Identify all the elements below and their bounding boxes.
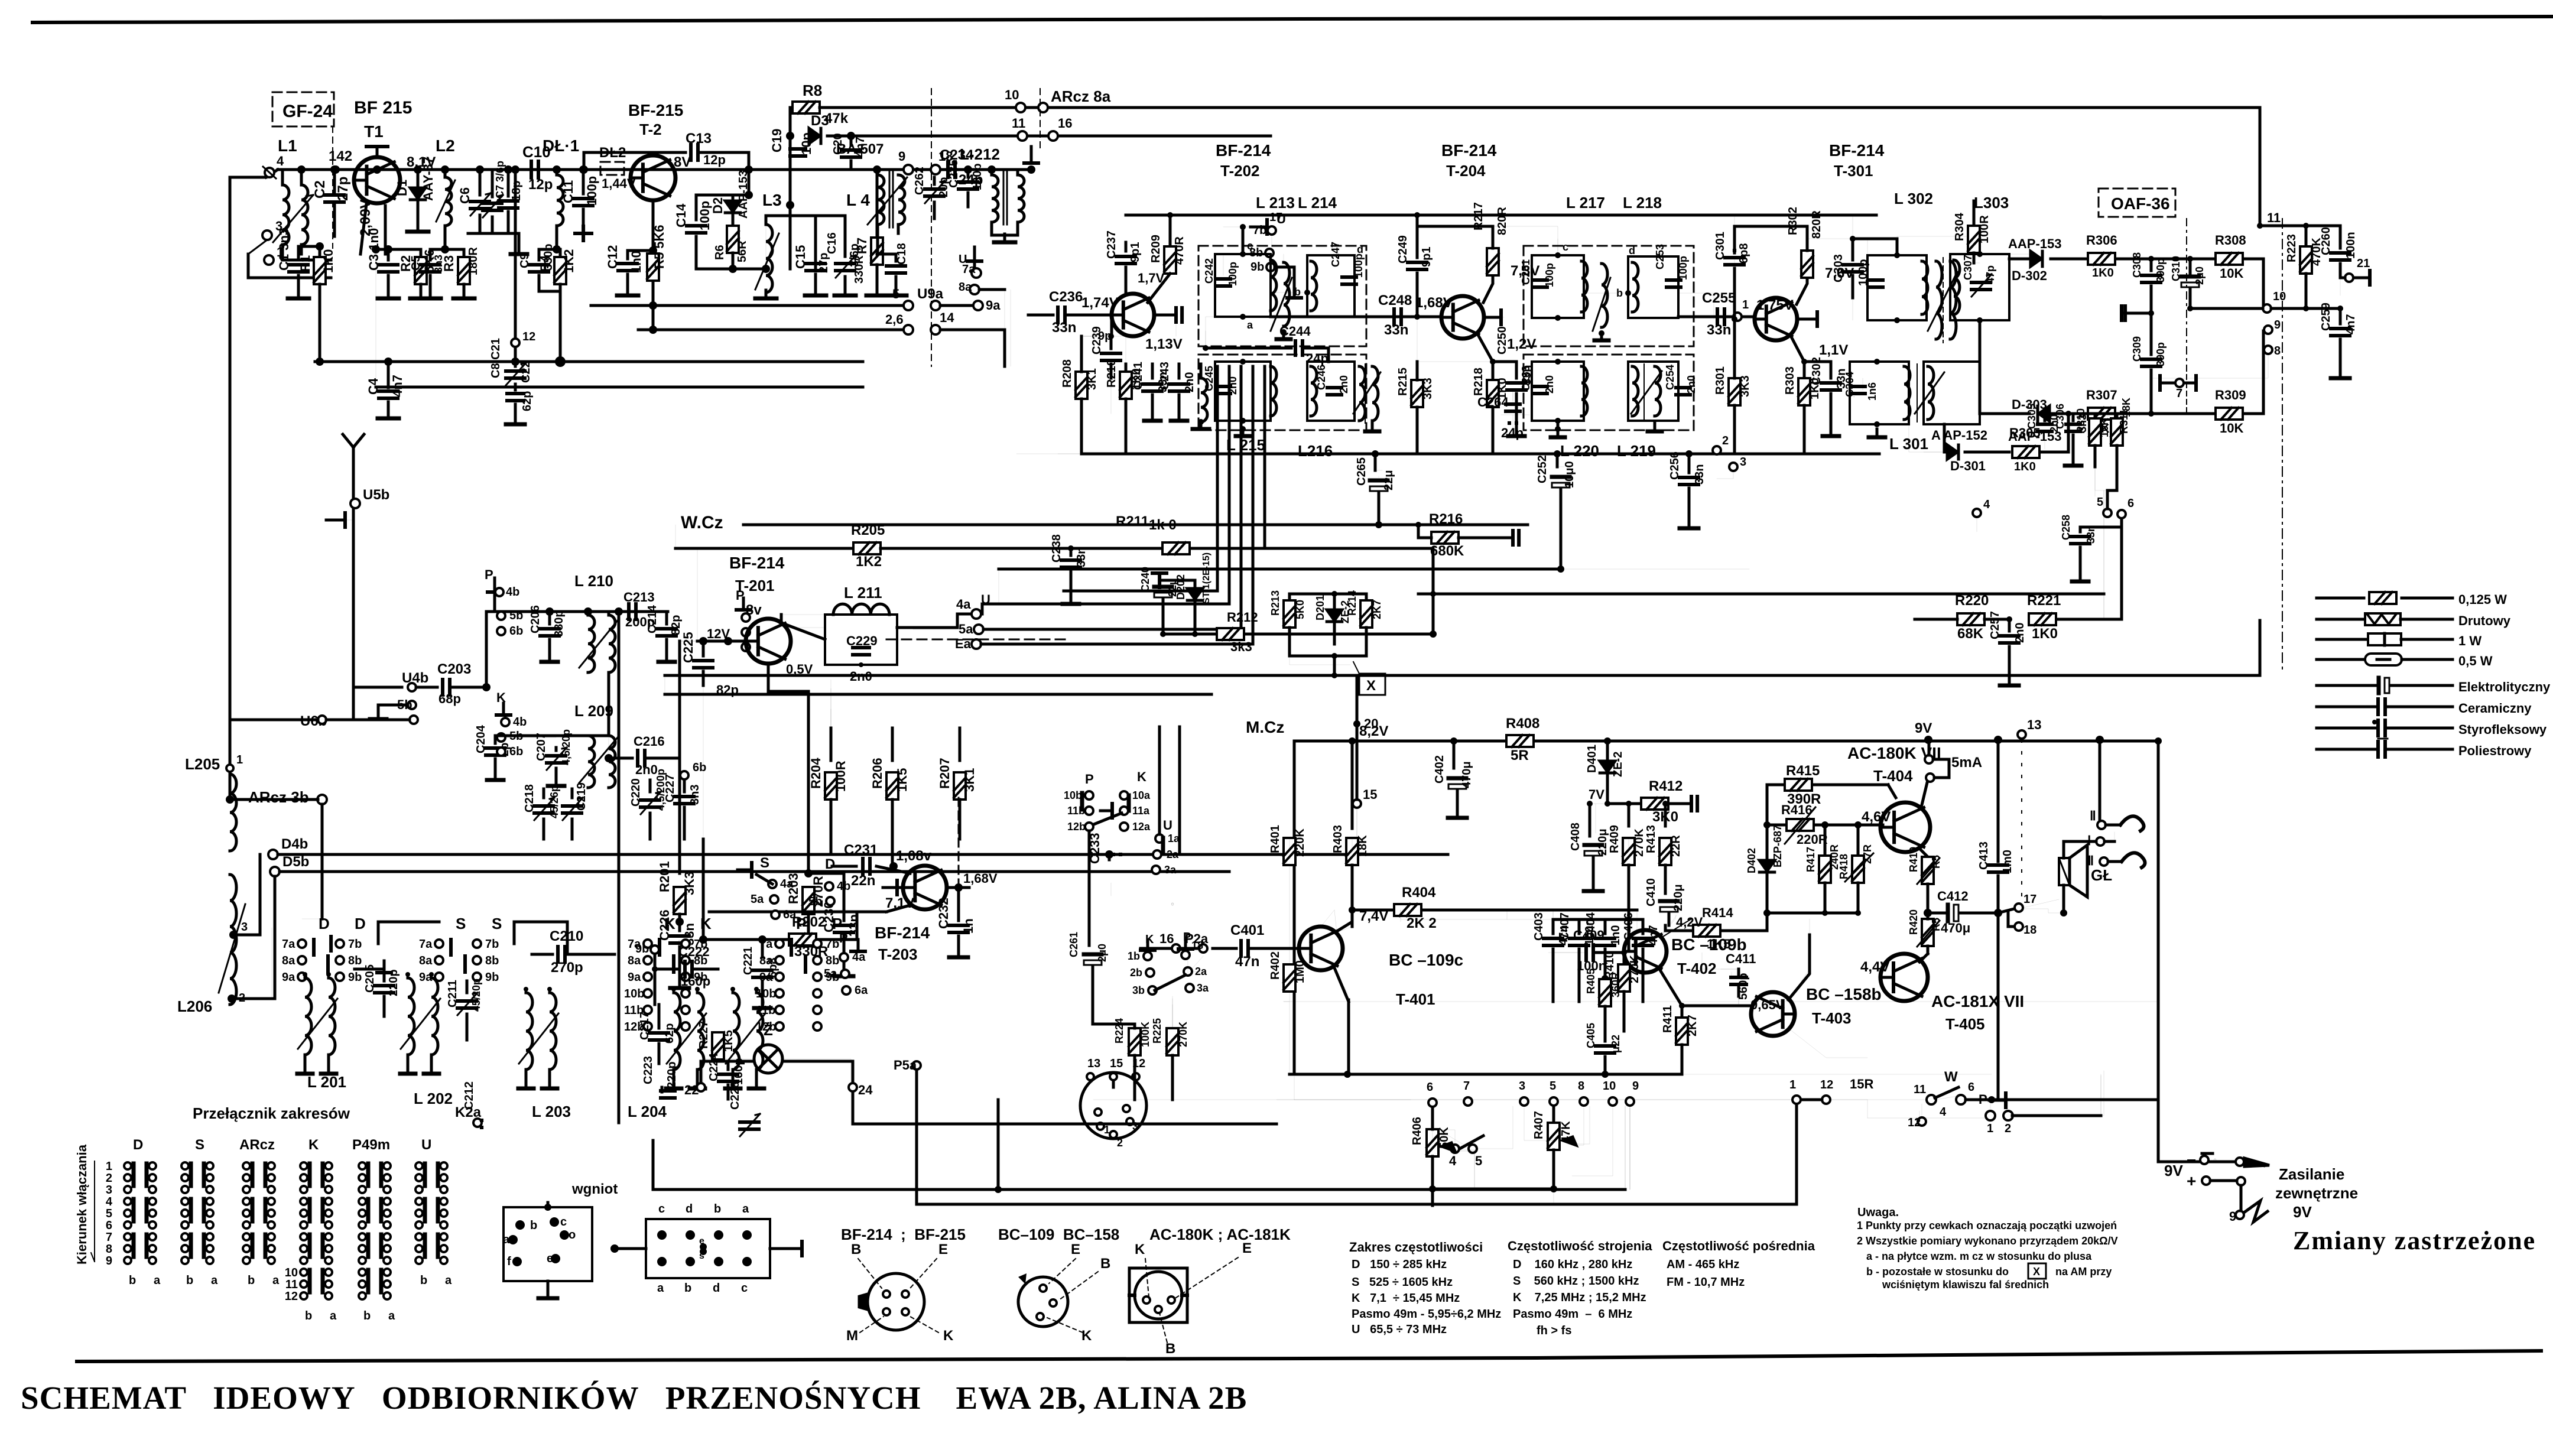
svg-text:C216: C216 [634,734,665,749]
capacitor C214 82p [646,604,683,662]
bus y1005 [1418,490,2104,619]
wire can B top [1493,226,1558,255]
svg-text:B: B [1100,1256,1110,1272]
svg-text:C244: C244 [1279,324,1311,339]
label BF-214 T-204 [1441,141,1497,180]
svg-text:C258: C258 [2060,515,2072,540]
svg-text:D: D [355,915,366,932]
node D2 block top [696,170,753,199]
table zakres row S [1352,1276,1453,1289]
svg-text:4,2V: 4,2V [1676,915,1703,929]
DIN labels [1087,1057,1145,1080]
coil L212 primary [960,145,1000,222]
terminal battery 9 [2229,1194,2268,1224]
svg-text:15: 15 [1363,787,1377,802]
label L218 [1623,194,1662,212]
capacitor C5 3n3 [410,249,444,298]
wire T301 emitter down [1784,336,1821,454]
svg-text:R409: R409 [1608,825,1621,853]
resistor R406 50K pot [1411,1107,1474,1205]
wire x20 terminal [1353,675,1378,854]
svg-text:b: b [530,1219,537,1232]
wire caps top bus [1401,910,1643,919]
svg-text:L 218: L 218 [1623,194,1662,212]
switch cluster K P mid [1128,931,1209,996]
wire L210 top [532,610,668,613]
terminal battery plus [2164,1162,2245,1190]
speaker hatch [2059,858,2070,885]
svg-text:C15: C15 [793,245,808,269]
svg-text:b - pozostałe w stosunku do: b - pozostałe w stosunku do [1866,1266,2009,1278]
lamp Z [754,1021,782,1073]
svg-text:C235: C235 [947,160,960,188]
resistor R203 270R [703,685,826,945]
wire antenna down [352,473,355,720]
resistor R311 18K [2111,398,2132,467]
wire D5b long [275,872,1229,999]
resistor R223 470K [2285,223,2323,311]
tank L303 [1950,251,2009,323]
wire pots feed [1524,1106,1613,1176]
label 8.1V [407,154,436,170]
svg-text:R4: R4 [538,255,553,272]
svg-text:C14: C14 [674,203,688,227]
svg-text:3K3: 3K3 [1739,375,1752,397]
diode D-302 [1980,236,2086,283]
resistor R402 1M0 [1269,904,1307,1074]
wire switch interconnect2 [514,922,567,954]
svg-text:Przełącznik zakresów: Przełącznik zakresów [193,1104,350,1122]
wire AF left vert [1294,741,1295,1074]
svg-text:12: 12 [522,330,535,343]
capacitor C217 62p [638,1005,676,1064]
capacitor C231b [857,873,865,875]
terminal ARcz 8a [1038,87,1111,112]
label BF 215 T1 [354,98,412,141]
ground R3 [0,0,2,2]
bus bottom af [1290,1002,1682,1078]
svg-text:C236: C236 [1049,289,1083,305]
label 2.09V [358,199,373,236]
svg-text:a: a [742,1202,749,1215]
wire L303 bottom [1980,320,2009,414]
wire bundle vertical 4 [981,366,1253,644]
tbar 17 top [1024,147,1038,174]
svg-text:220μ: 220μ [1672,884,1685,911]
bus af bottom [1294,1074,1992,1075]
terminal 3 L206 [229,854,260,939]
label L215 [1226,436,1265,454]
capacitor C9 330p [518,243,560,291]
wire L3 top to caps [766,216,845,259]
svg-text:b: b [248,1274,255,1287]
svg-text:D: D [319,915,330,932]
resistor R419 R5 [1908,847,1942,913]
svg-text:100p: 100p [1677,256,1689,280]
svg-text:2b: 2b [1130,967,1142,979]
tank L302 upper [1867,252,1928,323]
svg-text:Drutowy: Drutowy [2458,613,2511,628]
svg-text:1K0: 1K0 [2092,266,2114,279]
terminal U5b [350,487,389,508]
svg-text:5a: 5a [959,622,973,636]
capacitor C7 variable [483,161,506,233]
svg-text:T-204: T-204 [1446,162,1486,180]
capacitor C220 var [629,769,667,839]
svg-text:4: 4 [277,154,284,168]
wire pot top terminals [1427,1080,1639,1107]
transistor T-301 [1755,298,1797,340]
svg-text:R206: R206 [870,758,885,789]
svg-text:R302: R302 [1787,207,1800,235]
svg-text:2n0: 2n0 [1544,375,1555,394]
junction C4 node [384,357,392,366]
svg-text:na AM przy: na AM przy [2055,1266,2112,1278]
svg-text:47n: 47n [1235,954,1259,970]
svg-text:45/26p: 45/26p [548,785,560,818]
switch 4-5 mute [1433,1106,1513,1168]
svg-text:C257: C257 [1989,611,2002,639]
coil L215 input [1193,364,1209,429]
wire R411 to T403 base [1624,1006,1752,1031]
svg-text:12: 12 [1908,1116,1921,1129]
svg-text:33n: 33n [1384,322,1408,338]
diode D-301 AAP-152 [1909,424,2009,473]
wire T-201 to L211 [781,623,825,639]
svg-text:E: E [1242,1240,1252,1256]
svg-text:SCHEMAT IDEOWY ODBIORNIKÓW: SCHEMAT IDEOWY ODBIORNIKÓW PRZENOŚNYCH E… [21,1380,1247,1416]
capacitor C18 4n7 [877,243,908,295]
terminal 5a [913,622,983,636]
wire bottom bus FM [315,249,863,387]
svg-text:R6: R6 [713,245,726,260]
label 142 [329,148,381,174]
tbar T-203 emitter [709,880,910,912]
resistor R1 1K0 [298,242,336,366]
wire T301 collector [1735,207,1823,304]
label 1.08v [896,848,932,864]
terminal 7 tbar [2160,366,2196,414]
capacitor C207 var [535,729,572,786]
svg-text:380p: 380p [553,610,566,637]
svg-text:7a: 7a [419,938,433,951]
svg-text:c: c [1247,240,1253,252]
terminal 17 tbar [1223,211,1282,254]
svg-text:R223: R223 [2285,234,2298,262]
svg-text:C232: C232 [936,898,951,929]
svg-text:10: 10 [2273,290,2286,303]
table col ARcz header [239,1137,275,1153]
resistor R4 1K2 [538,245,576,367]
switch header D2 [355,915,366,932]
svg-text:2n0: 2n0 [1227,376,1239,395]
wire T402 collector [1661,915,1677,937]
L4 arrow [868,177,907,225]
svg-text:22R: 22R [1669,835,1682,857]
svg-text:45/20p: 45/20p [470,979,482,1012]
wire left af to W [1294,1099,1915,1100]
svg-text:μ22: μ22 [1610,1035,1622,1053]
svg-text:9V: 9V [2293,1203,2312,1221]
wire T404 collector top [1921,775,1929,807]
svg-text:C251: C251 [1520,259,1532,285]
L212 core [1003,171,1007,225]
bus y1861 left [1093,1099,1294,1100]
svg-text:9: 9 [898,149,905,164]
svg-text:C6: C6 [457,187,472,204]
label 8V [674,154,691,170]
wire T202 base bias [1111,315,1112,414]
wire D402 R417 bottom [1767,910,1861,916]
svg-text:390p: 390p [2155,258,2167,282]
switch bank D2 [0,0,2,2]
svg-text:R304: R304 [1953,212,1966,241]
svg-text:R224: R224 [1113,1018,1125,1044]
svg-text:8V: 8V [674,154,691,170]
resistor R421 15R [1789,1077,1873,1104]
wire R406 wiper out [1449,1150,1474,1189]
svg-text:15R: 15R [1850,1077,1873,1091]
svg-text:D2: D2 [710,197,725,214]
wire R407 wiper [1576,1107,1584,1145]
svg-text:C238: C238 [1050,534,1063,563]
wire L211 right [897,614,974,639]
wire 1551 vert [894,1058,921,1204]
svg-text:C241: C241 [1132,362,1145,390]
resistor R305 1K0 [2009,414,2068,473]
svg-text:10K: 10K [2220,421,2243,435]
table strojenia row D [1513,1258,1632,1271]
svg-text:390p: 390p [2155,342,2167,366]
terminal 7a 8a col [959,247,1005,294]
svg-text:3: 3 [1519,1080,1525,1093]
svg-text:100R: 100R [1978,215,1991,243]
svg-text:5: 5 [892,287,899,301]
svg-text:3K3: 3K3 [1421,378,1434,399]
svg-text:11: 11 [1012,116,1025,131]
svg-text:18: 18 [2023,924,2036,937]
svg-text:Ż: Ż [764,1021,773,1039]
svg-text:C218: C218 [523,784,536,812]
svg-text:T-402: T-402 [1677,960,1717,977]
svg-text:6a: 6a [783,908,797,921]
coil L210 pair [574,572,615,672]
terminal K2a [455,1104,482,1127]
legend cap styrofleksowy [2317,720,2547,737]
svg-text:5a: 5a [751,893,764,906]
tank L214 [1294,242,1365,317]
terminal 5 6 [2095,467,2134,518]
capacitor C233 22n [1087,833,1120,864]
label 0.5V [786,662,813,677]
svg-text:1n0: 1n0 [1609,925,1622,945]
wire L303 top [1980,254,2009,259]
svg-text:2n0: 2n0 [1338,375,1350,394]
svg-text:11a: 11a [1132,805,1150,817]
svg-text:1m0: 1m0 [2001,850,2014,873]
terminal ARcz 3b [235,788,327,806]
transistor T-202 [1112,294,1154,336]
svg-text:3K1: 3K1 [962,768,977,792]
wire T401 emitter [1333,967,1349,1074]
svg-text:5: 5 [106,1207,112,1220]
svg-text:Ⅲ: Ⅲ [2085,853,2094,868]
wire jack iii link [2103,866,2104,880]
legend cap ceramiczny [2317,699,2532,716]
tank L213 [1203,240,1276,331]
wire L302 can top rail [1807,236,1897,260]
svg-text:D: D [825,856,835,872]
capacitor C6 variable [457,165,491,233]
switch P right [1979,1092,2013,1135]
svg-text:R215: R215 [1396,368,1409,396]
table heading przelacznik [193,1104,350,1122]
capacitor C211 var [446,979,482,1040]
label 1.13V [1145,336,1183,352]
capacitor C256 33n [1668,450,1706,528]
svg-text:S: S [195,1137,204,1153]
tbar T301 emitter [1797,312,1817,326]
diode D401 ZE-2 [1586,741,1625,801]
svg-text:100n: 100n [1577,958,1606,973]
wire W to battery [2158,1100,2159,1162]
wire R202 vert [702,839,705,940]
label BF-214 T-201 [729,554,785,594]
svg-text:BC –109c: BC –109c [1389,951,1463,969]
dashed box DL2 [599,145,636,191]
svg-text:c: c [1563,241,1568,253]
resistor R225 270K [1151,904,1189,1086]
svg-text:33n: 33n [1075,547,1088,567]
tank L301 b [1869,362,1980,437]
pinout AC labels [1135,1240,1252,1357]
svg-text:1,2V: 1,2V [1507,336,1536,352]
resistor R6 56R [713,226,749,269]
legend resistor 0.5W [2317,654,2493,668]
diode D-303 [1980,320,2086,444]
wire P corner up [2100,1075,2101,1116]
resistor R415 390R [1767,763,1896,807]
svg-text:8v: 8v [746,602,762,618]
svg-text:3: 3 [1132,1120,1138,1132]
capacitor C240 22u [1139,567,1178,634]
resistor R5 5K6 [647,225,667,281]
pinout label BF-214 BF-215 [841,1226,966,1243]
capacitor C8 C21 C22 cluster [489,165,535,424]
coil L1 primary [282,170,289,260]
capacitor C205 220p [355,961,400,1016]
svg-text:L3: L3 [762,191,782,209]
antenna symbol [343,434,364,473]
wire L206 to D5b [232,876,275,999]
svg-text:1K5: 1K5 [895,768,910,792]
svg-text:D3: D3 [811,113,829,129]
svg-text:C228: C228 [729,1081,742,1110]
svg-text:BF-214: BF-214 [1216,141,1271,160]
svg-text:AAY-37: AAY-37 [421,157,436,201]
resistor R227 1K5 [697,1020,735,1059]
diode D402 BZP-687 [1746,825,1784,873]
svg-text:c: c [741,1282,748,1295]
svg-text:BF-215: BF-215 [628,101,683,119]
svg-text:22n: 22n [851,873,875,889]
svg-text:P: P [485,567,493,582]
wire L1 bottom to C2 [248,254,331,278]
wire det top node [2257,210,2340,229]
capacitor C224 160p [707,1052,745,1099]
svg-text:1,7V: 1,7V [1138,271,1165,285]
svg-text:T-403: T-403 [1812,1009,1852,1027]
table posrednia row FM [1667,1276,1745,1289]
resistor R410 270K [1603,950,1641,1031]
terminal P col right [736,588,751,651]
wire AM det bus [1081,453,1879,456]
svg-text:17: 17 [2023,893,2036,906]
svg-text:100R: 100R [833,760,848,792]
resistor R205 1K2 [851,522,1058,570]
svg-text:820R: 820R [1496,207,1509,235]
coil L209 pair [574,702,615,788]
wire output node [1924,909,1944,917]
switch cluster rows [1064,789,1151,833]
svg-text:d: d [1357,243,1363,255]
L4 core lines [889,171,893,227]
svg-text:3b: 3b [1132,984,1145,996]
legend resistor 1W [2317,633,2481,648]
svg-text:13: 13 [1087,1057,1100,1070]
capacitor C406 4n7 [1622,912,1660,1002]
tbar T202 emitter [1154,308,1182,322]
antenna terminal 4 [263,154,284,178]
capacitor C13 12p [580,131,753,174]
svg-text:X: X [1366,678,1376,694]
svg-text:zewnętrzne: zewnętrzne [2275,1184,2358,1202]
wire T403 to output [1788,935,1867,1058]
resistor R207 3K3 [937,728,977,854]
label 4.4V [1860,959,1889,975]
svg-text:S: S [492,915,502,932]
svg-text:470μ: 470μ [1460,761,1473,788]
wire osc emitter [768,664,808,873]
capacitor C303 body [1843,265,1862,320]
svg-text:C256: C256 [1668,451,1681,480]
svg-text:R307: R307 [2086,388,2117,402]
svg-text:C10: C10 [522,143,551,161]
svg-text:9p1: 9p1 [1129,242,1142,262]
capacitor C302 33n [1801,357,1848,436]
capacitor C258 33n [2060,515,2122,581]
capacitor C14 100p [674,195,712,269]
resistor R301 3K3 [1714,319,1752,454]
svg-text:270K: 270K [1177,1022,1189,1047]
svg-text:4a: 4a [956,597,971,612]
resistor R202 330R [699,912,857,960]
wgniot box long [610,1202,802,1295]
terminal battery minus [2158,1151,2244,1169]
svg-text:180R: 180R [467,247,480,275]
svg-text:24p: 24p [1501,425,1524,440]
terminal 8 [2151,344,2281,378]
capacitor C234 24p [940,147,983,188]
resistor R212 3k3 [1160,610,1276,654]
label BF-214 T-301 [1829,141,1885,180]
svg-text:C206: C206 [529,605,542,633]
svg-text:330R: 330R [794,944,828,960]
svg-text:d: d [686,1202,693,1215]
wire T204 emitter down [1472,334,1509,454]
wire interstage 2 [1584,293,1752,319]
svg-text:R310: R310 [2075,408,2087,434]
